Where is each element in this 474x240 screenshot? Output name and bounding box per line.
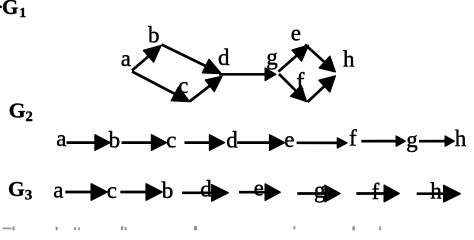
svg-text:h: h: [455, 126, 467, 151]
svg-text:g: g: [406, 127, 418, 152]
svg-text:h: h: [343, 46, 355, 71]
svg-text:h: h: [430, 179, 442, 204]
svg-text:3: 3: [25, 187, 33, 203]
svg-text:e: e: [291, 21, 301, 46]
svg-text:G: G: [9, 99, 26, 123]
svg-text:f: f: [349, 125, 357, 150]
svg-text:1: 1: [19, 6, 26, 21]
svg-text:a: a: [121, 46, 131, 71]
svg-text:c: c: [107, 178, 117, 203]
svg-text:g: g: [314, 178, 326, 203]
svg-text:b: b: [162, 178, 174, 203]
svg-text:b: b: [109, 127, 121, 152]
svg-text:b: b: [148, 23, 160, 48]
svg-text:a: a: [53, 177, 63, 202]
svg-text:2: 2: [26, 109, 33, 125]
svg-text:e: e: [284, 127, 294, 152]
svg-text:G: G: [2, 0, 18, 19]
svg-text:g: g: [266, 45, 278, 70]
svg-text:f: f: [372, 179, 380, 204]
svg-text:d: d: [218, 45, 230, 70]
svg-text:e: e: [254, 176, 264, 201]
svg-text:d: d: [226, 127, 238, 152]
svg-text:G: G: [8, 177, 25, 201]
svg-text:d: d: [200, 177, 212, 202]
svg-text:c: c: [166, 127, 176, 152]
svg-text:a: a: [56, 126, 66, 151]
